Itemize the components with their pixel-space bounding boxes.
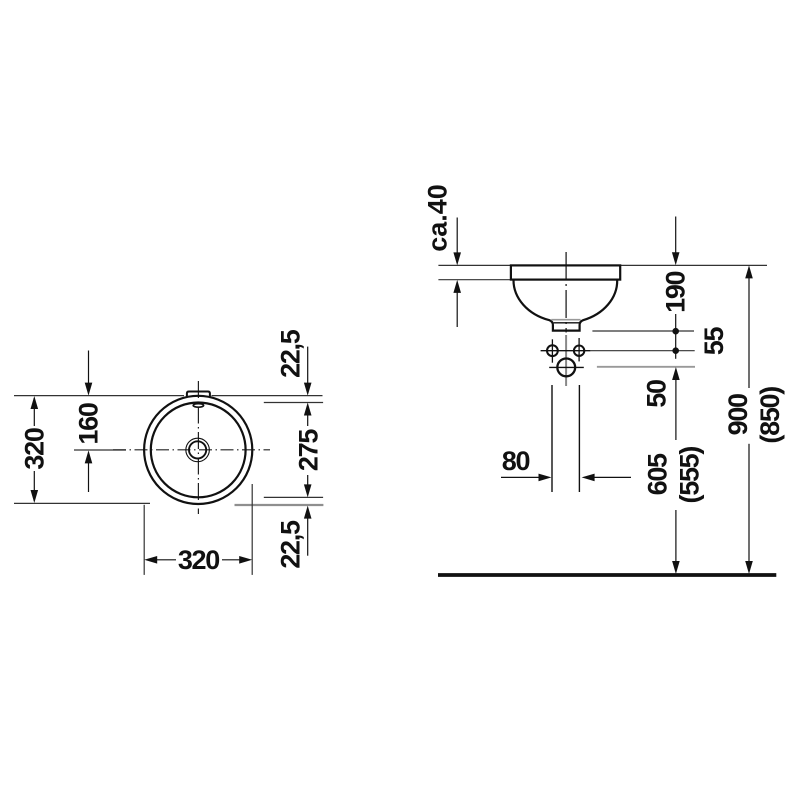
drain gasket gray line <box>551 319 580 321</box>
svg-text:55: 55 <box>699 327 729 356</box>
drain inner circle <box>189 441 206 458</box>
fixing hole right <box>574 346 584 356</box>
svg-text:900: 900 <box>723 394 753 435</box>
drain flange line <box>554 322 580 324</box>
svg-text:320: 320 <box>178 545 219 575</box>
wire: fixing hole level extension right <box>590 350 694 352</box>
svg-text:190: 190 <box>661 271 691 312</box>
svg-text:275: 275 <box>293 429 323 471</box>
svg-text:(555): (555) <box>674 447 704 504</box>
crosshair drain hole horizontal <box>549 366 584 368</box>
basin inner bowl circle <box>151 403 246 498</box>
tap hole tab at top <box>187 392 210 397</box>
basin bowl profile with drain fitting <box>513 280 617 331</box>
svg-text:(850): (850) <box>755 387 785 444</box>
wire: left extension for bottom 320 <box>143 505 145 575</box>
dimension 900 (850) <box>745 265 753 278</box>
svg-text:160: 160 <box>74 403 104 444</box>
svg-text:605: 605 <box>643 453 673 495</box>
wire: bottom tangent extension left <box>14 502 150 504</box>
svg-text:50: 50 <box>642 380 672 408</box>
wire: drain bottom extension right <box>592 330 694 332</box>
wire: inner-circle top tangent extension <box>264 402 323 404</box>
wire: center-level extension for 160 <box>74 449 126 451</box>
floor line <box>438 573 776 577</box>
dimension 22,5 bottom right <box>304 506 312 519</box>
crosshair holes horizontal <box>541 350 591 352</box>
wire: drain pipe line left <box>551 385 553 492</box>
wire: right extension for bottom 320 <box>251 484 253 575</box>
wire: top tangent extension line <box>14 395 184 397</box>
wire: rim bottom extension left <box>438 279 511 281</box>
dimension ca.40 <box>456 218 458 254</box>
dimension 50 <box>672 367 680 380</box>
basin outer rim circle <box>144 396 252 504</box>
dimension 275 right <box>304 403 312 416</box>
wire: bottom tangent thick gray segment <box>235 504 324 506</box>
node: horizontal centerline of basin top view <box>113 449 270 451</box>
wire: rim top extension line (left for ca.40, right for 190/900) <box>438 264 511 266</box>
svg-text:320: 320 <box>19 428 49 469</box>
node: gray centerline through drain hole <box>565 335 567 386</box>
basin rim rectangle <box>511 265 620 279</box>
fixing hole left <box>547 345 558 356</box>
dimension 55 dots <box>672 328 679 335</box>
svg-text:22,5: 22,5 <box>276 520 306 569</box>
drain hole big <box>557 359 575 377</box>
wire: drain hole level gray extension right <box>597 366 695 368</box>
crosshair left hole vertical <box>551 339 553 362</box>
dimension 190 <box>675 217 677 254</box>
overflow ellipse <box>193 404 203 408</box>
dimension 605 (555) <box>675 380 677 441</box>
node: vertical centerline of front view <box>565 252 567 333</box>
svg-text:80: 80 <box>502 446 530 476</box>
crosshair right hole vertical <box>578 338 580 361</box>
svg-text:22,5: 22,5 <box>275 329 305 378</box>
dimension 160 vertical <box>88 351 90 384</box>
drain outer circle <box>186 438 210 462</box>
node: vertical centerline of basin top view <box>197 381 199 514</box>
wire: drain pipe line right <box>578 385 580 492</box>
dimension 22,5 top right <box>307 347 309 383</box>
dimension 320 left vertical <box>33 398 35 426</box>
dimension 320 bottom horizontal <box>144 556 157 564</box>
wire: inner-circle bottom tangent extension <box>264 496 323 498</box>
dimension 80 <box>501 476 542 478</box>
svg-text:ca.40: ca.40 <box>423 184 453 252</box>
